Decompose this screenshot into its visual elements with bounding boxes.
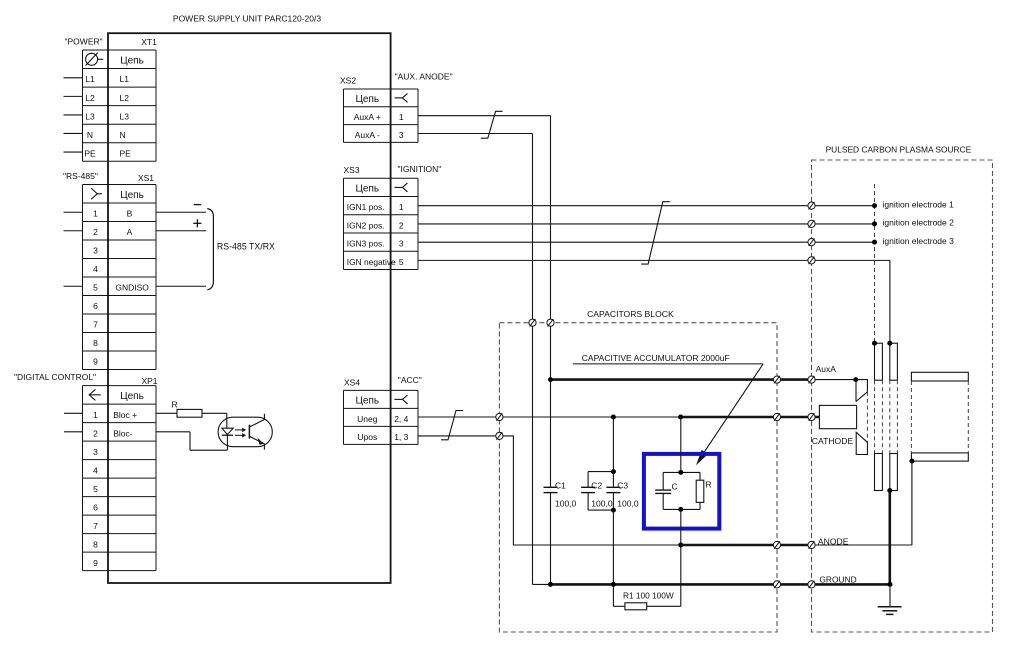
svg-text:"POWER": "POWER"	[65, 37, 103, 47]
svg-text:Цепь: Цепь	[356, 94, 380, 105]
svg-text:6: 6	[93, 301, 98, 311]
svg-text:C1: C1	[555, 480, 566, 490]
svg-text:XS3: XS3	[344, 165, 360, 175]
svg-text:R1 100 100W: R1 100 100W	[623, 591, 674, 601]
svg-text:8: 8	[93, 338, 98, 348]
svg-text:PE: PE	[84, 148, 96, 158]
svg-text:N: N	[120, 130, 126, 140]
svg-text:XS1: XS1	[138, 173, 154, 183]
svg-text:1, 3: 1, 3	[394, 432, 408, 442]
svg-text:ANODE: ANODE	[818, 536, 849, 546]
svg-text:N: N	[87, 130, 93, 140]
svg-text:GROUND: GROUND	[819, 574, 856, 584]
svg-text:2, 4: 2, 4	[394, 414, 408, 424]
svg-text:L2: L2	[120, 93, 130, 103]
svg-text:RS-485 TX/RX: RS-485 TX/RX	[217, 242, 275, 252]
svg-text:XS4: XS4	[344, 377, 360, 387]
svg-text:Bloc-: Bloc-	[113, 428, 133, 438]
svg-text:1: 1	[399, 202, 404, 212]
svg-text:9: 9	[93, 357, 98, 367]
svg-text:1: 1	[93, 209, 98, 219]
svg-text:GNDISO: GNDISO	[115, 283, 149, 293]
svg-text:ignition electrode 2: ignition electrode 2	[883, 218, 955, 228]
svg-text:Bloc +: Bloc +	[113, 410, 137, 420]
svg-text:Upos: Upos	[357, 432, 377, 442]
svg-text:AuxA -: AuxA -	[355, 130, 380, 140]
svg-text:L3: L3	[120, 111, 130, 121]
svg-text:AuxA: AuxA	[816, 364, 837, 374]
svg-text:"AUX. ANODE": "AUX. ANODE"	[395, 71, 453, 81]
svg-text:1: 1	[399, 112, 404, 122]
svg-text:9: 9	[93, 558, 98, 568]
svg-text:PE: PE	[120, 148, 132, 158]
svg-text:100,0: 100,0	[555, 498, 577, 508]
svg-text:Цепь: Цепь	[356, 396, 380, 407]
svg-text:AuxA +: AuxA +	[354, 112, 381, 122]
svg-text:4: 4	[93, 264, 98, 274]
svg-text:L3: L3	[85, 111, 95, 121]
svg-text:3: 3	[399, 130, 404, 140]
svg-text:IGN3 pos.: IGN3 pos.	[347, 239, 385, 249]
svg-text:8: 8	[93, 539, 98, 549]
svg-text:4: 4	[93, 465, 98, 475]
svg-text:C2: C2	[591, 480, 602, 490]
svg-text:R: R	[706, 480, 712, 490]
svg-text:Цепь: Цепь	[120, 391, 144, 402]
svg-text:2: 2	[399, 220, 404, 230]
svg-text:IGN2 pos.: IGN2 pos.	[347, 220, 385, 230]
svg-text:CAPACITIVE ACCUMULATOR 2000uF: CAPACITIVE ACCUMULATOR 2000uF	[582, 353, 730, 363]
svg-text:A: A	[127, 227, 133, 237]
svg-text:IGN1 pos.: IGN1 pos.	[347, 202, 385, 212]
svg-text:5: 5	[93, 283, 98, 293]
svg-text:ignition electrode 1: ignition electrode 1	[883, 199, 955, 209]
svg-text:7: 7	[93, 521, 98, 531]
svg-text:C3: C3	[617, 480, 628, 490]
svg-text:100,0: 100,0	[617, 498, 639, 508]
svg-text:5: 5	[93, 484, 98, 494]
svg-text:XS2: XS2	[340, 75, 356, 85]
svg-text:B: B	[127, 209, 133, 219]
svg-text:L1: L1	[120, 74, 130, 84]
svg-text:3: 3	[399, 239, 404, 249]
svg-text:"DIGITAL CONTROL": "DIGITAL CONTROL"	[14, 372, 96, 382]
svg-text:IGN negative: IGN negative	[347, 257, 396, 267]
svg-text:"ACC": "ACC"	[398, 375, 422, 385]
svg-text:5: 5	[399, 257, 404, 267]
svg-text:100,0: 100,0	[591, 498, 613, 508]
svg-text:ignition electrode 3: ignition electrode 3	[883, 236, 955, 246]
svg-text:R: R	[172, 400, 178, 410]
svg-text:L2: L2	[85, 93, 95, 103]
svg-text:3: 3	[93, 246, 98, 256]
svg-text:CAPACITORS BLOCK: CAPACITORS BLOCK	[587, 309, 674, 319]
svg-text:Цепь: Цепь	[356, 184, 380, 195]
svg-text:XP1: XP1	[141, 376, 157, 386]
svg-text:L1: L1	[85, 74, 95, 84]
svg-text:Цепь: Цепь	[120, 56, 144, 67]
svg-text:PULSED CARBON PLASMA SOURCE: PULSED CARBON PLASMA SOURCE	[826, 144, 972, 154]
svg-text:Цепь: Цепь	[120, 190, 144, 201]
svg-text:"IGNITION": "IGNITION"	[398, 164, 442, 174]
svg-text:1: 1	[93, 410, 98, 420]
svg-text:CATHODE: CATHODE	[812, 436, 854, 446]
svg-text:"RS-485": "RS-485"	[63, 171, 98, 181]
svg-text:Uneg: Uneg	[357, 414, 378, 424]
svg-text:6: 6	[93, 502, 98, 512]
svg-text:C: C	[672, 481, 678, 491]
svg-text:XT1: XT1	[141, 37, 157, 47]
svg-text:3: 3	[93, 447, 98, 457]
svg-text:POWER SUPPLY UNIT PARC120-20/3: POWER SUPPLY UNIT PARC120-20/3	[173, 14, 321, 24]
svg-text:2: 2	[93, 428, 98, 438]
svg-text:7: 7	[93, 320, 98, 330]
svg-text:2: 2	[93, 227, 98, 237]
